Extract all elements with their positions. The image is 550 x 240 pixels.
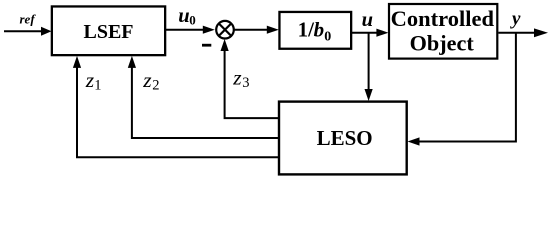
svg-text:3: 3 [242, 75, 249, 91]
svg-text:z: z [85, 68, 95, 92]
svg-text:1/: 1/ [298, 18, 316, 42]
wire 1/b0 to Controlled Object [352, 29, 388, 37]
svg-text:u: u [178, 5, 189, 27]
svg-text:2: 2 [152, 78, 159, 94]
block LESO [279, 102, 407, 175]
svg-text:Object: Object [410, 31, 475, 56]
wire z2 from LESO to LSEF [128, 56, 279, 138]
svg-text:z: z [142, 68, 152, 92]
svg-text:0: 0 [189, 13, 196, 28]
label z1 [85, 68, 102, 94]
svg-text:ref: ref [20, 12, 37, 27]
wire ref input [4, 27, 52, 36]
label minus sign [202, 44, 211, 47]
summing junction [216, 21, 234, 39]
wire z1 from LESO to LSEF [73, 56, 279, 157]
block LSEF [52, 6, 165, 55]
svg-text:z: z [232, 66, 242, 90]
wire LSEF to summing junction [166, 26, 215, 34]
block 1/b0 [279, 12, 351, 49]
svg-text:Controlled: Controlled [391, 6, 495, 31]
wire u feedback down to LESO [365, 33, 373, 101]
label u0 [178, 5, 196, 28]
svg-text:y: y [510, 9, 521, 30]
svg-text:b: b [314, 18, 325, 42]
wire z3 from LESO to summing junction [221, 39, 280, 118]
svg-text:LSEF: LSEF [83, 21, 133, 43]
svg-text:u: u [362, 9, 373, 31]
block Controlled Object [389, 4, 497, 59]
svg-text:1: 1 [94, 78, 101, 94]
svg-text:LESO: LESO [317, 126, 373, 150]
label z2 [142, 68, 159, 94]
wire summing junction to 1/b0 [234, 26, 278, 34]
svg-text:0: 0 [324, 30, 331, 45]
label z3 [232, 66, 249, 92]
wire y feedback down and left into LESO [408, 33, 516, 146]
wire output y [498, 28, 548, 37]
